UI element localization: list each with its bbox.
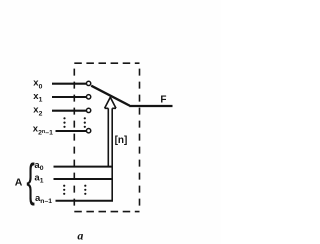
wire x2 [52, 110, 86, 112]
svg-text:a: a [77, 229, 83, 243]
svg-text:F: F [160, 94, 166, 105]
svg-text:a1: a1 [34, 172, 43, 184]
switch wiper arm [91, 86, 129, 106]
wire x1 [52, 96, 86, 98]
wire a0 [54, 166, 113, 168]
svg-text:x2n–1: x2n–1 [33, 124, 53, 137]
ellipsis dots a section [63, 185, 86, 195]
contact circle x2^n-1 [86, 129, 90, 133]
dashed selector box [74, 63, 139, 211]
svg-text:x2: x2 [33, 105, 42, 118]
wire x2^n-1 [56, 130, 87, 132]
wire an-1 [56, 200, 114, 202]
svg-text:a0: a0 [34, 160, 43, 172]
svg-text:an–1: an–1 [35, 193, 52, 205]
ellipsis dots x section [63, 117, 86, 128]
svg-text:x0: x0 [33, 78, 42, 91]
contact circle x0 [86, 81, 90, 85]
svg-text:A: A [15, 177, 23, 189]
contact circle x2 [86, 108, 90, 112]
svg-text:[n]: [n] [115, 135, 128, 146]
svg-text:x1: x1 [33, 91, 42, 104]
selection bus hollow arrow [n] [105, 97, 116, 201]
contact circle x1 [86, 95, 90, 99]
wire a1 [54, 178, 113, 180]
svg-text:{: { [26, 154, 35, 206]
wire x0 [52, 83, 86, 85]
wire F output [129, 105, 172, 107]
